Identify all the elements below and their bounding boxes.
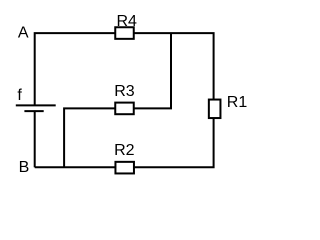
battery f short plate (-) [24,110,43,112]
resistor R3 body [115,103,134,115]
wire: middle branch - up from bottom rail, across through R3, up to top rail [64,33,171,167]
svg-text:R1: R1 [227,94,248,111]
svg-text:B: B [19,159,30,176]
svg-text:R2: R2 [114,142,135,159]
svg-text:R3: R3 [114,83,135,100]
svg-text:f: f [17,87,22,104]
wire: top rail from node A across to right branch, down to R1 top [35,33,214,105]
wire: lower left vertical from battery minus plate to bottom rail [34,111,36,167]
resistor R1 body [209,100,221,119]
wire: bottom rail from node B across to right branch, up to R1 bottom [35,118,214,167]
svg-text:R4: R4 [117,13,138,30]
resistor R2 body [115,162,134,174]
battery f long plate (+) [16,104,56,106]
resistor R4 body [115,27,134,39]
svg-text:A: A [18,25,29,42]
